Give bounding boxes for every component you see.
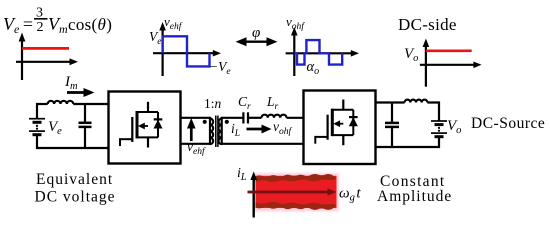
resonant capacitor Cr [243, 112, 248, 123]
wire: Cr to Lr [248, 117, 262, 119]
wire: secondary bottom to box U2 [222, 143, 305, 145]
i_L arrow [247, 125, 272, 134]
battery Ve [29, 103, 45, 149]
phase shift phi double arrow [236, 37, 278, 46]
svg-text:DC-Source: DC-Source [471, 115, 545, 132]
i_L dark top ripple [256, 174, 337, 182]
transformer core [216, 116, 218, 148]
v_ohf blue quasi-square wave [294, 40, 342, 65]
Ve plot red trace (constant DC level) [22, 47, 69, 50]
primary polarity dot [203, 120, 207, 124]
v_ohf waveform vertical axis [291, 27, 298, 76]
wire: inductor to battery Vo corner [427, 103, 439, 121]
omega_g t axis arrow (dark red) [248, 188, 337, 196]
output filter capacitor [385, 102, 399, 149]
Ve plot horizontal axis [16, 58, 78, 65]
output inductor (4 humps) [405, 100, 428, 103]
transformer T1 secondary winding [218, 117, 221, 145]
equation Ve = 3/2 Vm cos(theta) [3, 6, 112, 37]
left converter box U1 [109, 92, 181, 164]
wire: box U2 to output filter (top) [376, 101, 405, 103]
v_ehf waveform horizontal axis [153, 50, 221, 57]
wire: secondary top to Cr [222, 117, 244, 119]
transformer T1 primary winding [210, 117, 213, 145]
Vo plot red trace [426, 49, 472, 52]
v_ehf arrow (primary voltage) [187, 118, 196, 141]
right converter box U2 [304, 91, 376, 165]
i_L plot vertical axis [250, 172, 257, 218]
wire: bottom of output loop [376, 146, 441, 148]
Vo plot vertical axis [423, 39, 430, 87]
Equivalent DC voltage caption [35, 171, 116, 206]
MOSFET Q2 with body diode [315, 100, 358, 146]
wire: battery top to input inductor [36, 103, 48, 105]
Ve plot vertical axis [19, 33, 26, 81]
i_L pink halo [254, 173, 340, 211]
svg-text:2: 2 [37, 20, 44, 35]
wire: bottom of left source loop [36, 147, 109, 149]
i_L dark bottom ripple [256, 202, 337, 210]
svg-text:Equivalent: Equivalent [36, 171, 113, 188]
input filter capacitor [79, 103, 92, 149]
current Im arrow [67, 88, 95, 97]
svg-text:1:n: 1:n [204, 96, 222, 111]
battery Vo [431, 121, 447, 148]
wire: box U1 to transformer primary (bottom) [181, 143, 211, 145]
MOSFET Q1 with body diode [120, 102, 163, 148]
svg-text:Amplitude: Amplitude [377, 188, 452, 205]
wire: box U1 to transformer primary (top) [181, 117, 211, 119]
wire: Lr to box U2 (top) [287, 117, 305, 119]
Vo plot horizontal axis [420, 62, 482, 69]
secondary polarity dot [225, 120, 229, 124]
svg-text:cos(θ): cos(θ) [68, 15, 112, 34]
i_L red envelope band [256, 176, 337, 208]
svg-text:DC-side: DC-side [398, 15, 457, 34]
v_ohf waveform horizontal axis [286, 50, 359, 57]
v_ehf waveform vertical axis [159, 22, 166, 76]
svg-text:DC voltage: DC voltage [35, 189, 116, 206]
v_ehf blue square wave [163, 36, 210, 66]
Constant Amplitude caption [377, 173, 452, 205]
resonant inductor Lr (4 humps) [262, 115, 287, 118]
svg-text:φ: φ [252, 25, 260, 41]
wire: inductor to left box (top) [73, 103, 109, 105]
input inductor Lf (4 humps) [48, 101, 74, 104]
